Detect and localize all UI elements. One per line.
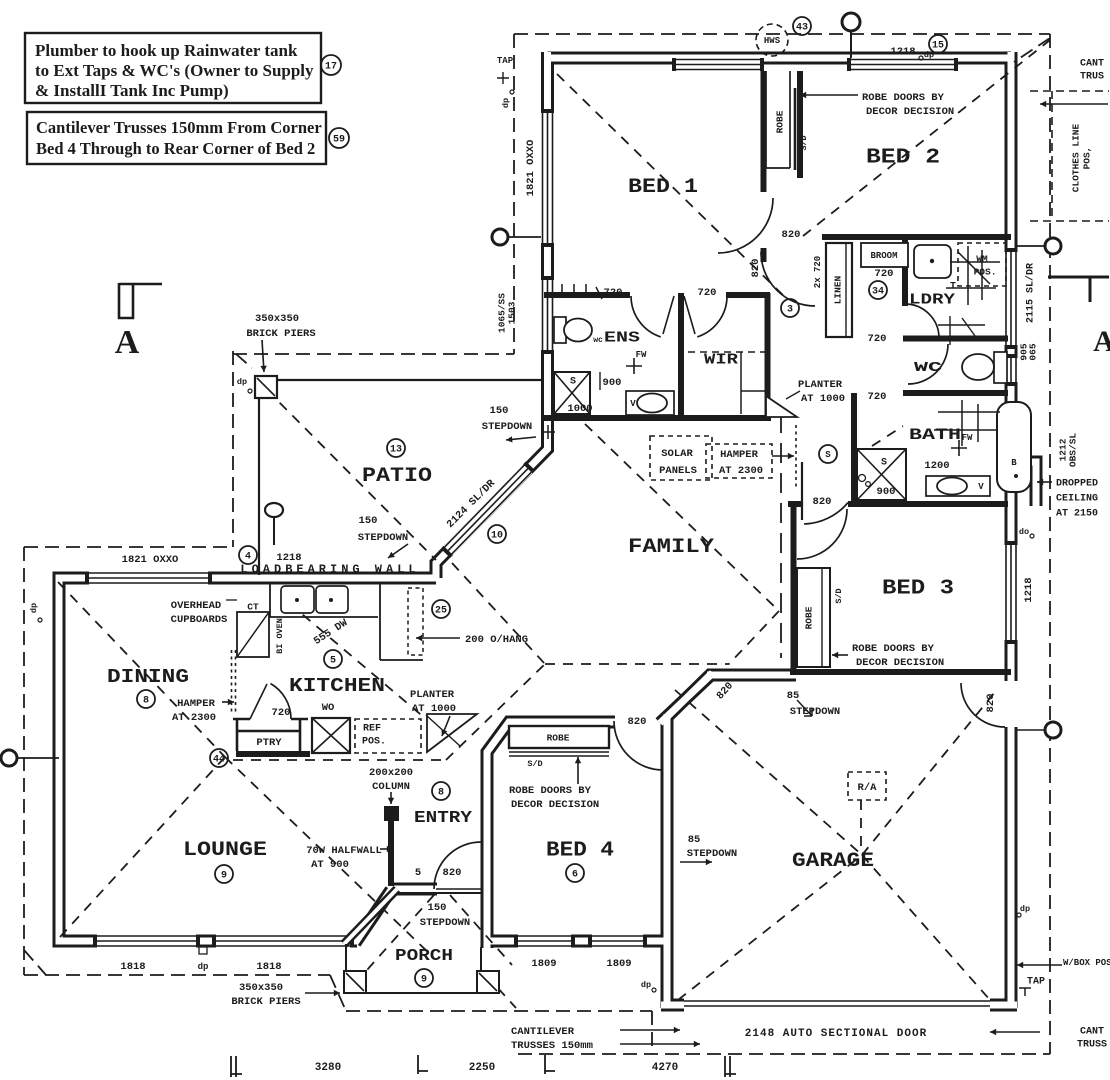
- svg-text:Plumber to hook up Rainwater t: Plumber to hook up Rainwater tank: [35, 41, 298, 60]
- svg-text:1818: 1818: [256, 961, 281, 973]
- hws dashed circle: [756, 24, 788, 56]
- svg-text:1809: 1809: [606, 958, 631, 970]
- svg-text:AT 2300: AT 2300: [719, 465, 763, 477]
- label 2x720 rotated: [813, 256, 823, 288]
- svg-text:BED 4: BED 4: [546, 840, 614, 863]
- bath tub: [997, 402, 1031, 492]
- svg-text:to Ext Taps & WC's (Owner to S: to Ext Taps & WC's (Owner to Supply: [35, 61, 314, 80]
- label 820 hall rotated: [750, 259, 762, 278]
- svg-text:BI OVEN: BI OVEN: [275, 618, 285, 654]
- entry door arc: [436, 888, 481, 890]
- garage door sill: [684, 1001, 990, 1006]
- interior walls: [236, 71, 1011, 886]
- svg-text:BRICK PIERS: BRICK PIERS: [231, 996, 300, 1008]
- svg-text:1809: 1809: [531, 958, 556, 970]
- svg-text:1821 OXXO: 1821 OXXO: [122, 554, 179, 566]
- svg-text:720: 720: [698, 287, 717, 299]
- hall circled 3: [781, 299, 799, 317]
- window 905 east wall wc: [1005, 358, 1018, 382]
- svg-text:820: 820: [443, 867, 462, 879]
- window top wall bed1: [676, 58, 760, 71]
- svg-text:ROBE DOORS BY: ROBE DOORS BY: [509, 785, 592, 797]
- svg-text:V: V: [630, 399, 636, 409]
- patio pier: [255, 376, 277, 398]
- dp top left: [501, 98, 511, 108]
- bed3 door arc: [797, 509, 847, 559]
- svg-text:70W HALFWALL: 70W HALFWALL: [306, 845, 382, 857]
- svg-text:820: 820: [782, 229, 801, 241]
- svg-text:T: T: [950, 282, 956, 293]
- svg-text:10: 10: [491, 531, 503, 542]
- svg-text:2115 SL/DR: 2115 SL/DR: [1025, 263, 1037, 323]
- dim 1212 east rotated: [1057, 438, 1068, 461]
- svg-text:CANT: CANT: [1080, 1027, 1104, 1038]
- bath tap hash: [934, 400, 1000, 446]
- bed1 door arc: [718, 198, 773, 253]
- svg-text:1000: 1000: [567, 403, 592, 415]
- svg-text:dp: dp: [198, 962, 209, 972]
- svg-text:A: A: [115, 324, 140, 361]
- planter wedge hall: [766, 396, 797, 417]
- svg-text:POS.: POS.: [362, 737, 386, 748]
- svg-text:CANTILEVER: CANTILEVER: [511, 1026, 575, 1038]
- svg-text:WIR: WIR: [704, 351, 738, 368]
- svg-text:5: 5: [415, 867, 421, 879]
- 2124 sl/dr rotated: [445, 477, 499, 531]
- window 1818 lounge bottom 2: [216, 935, 350, 948]
- svg-text:1218: 1218: [890, 46, 915, 58]
- slider 2124 on patio diagonal: [441, 461, 535, 558]
- svg-text:WC: WC: [914, 360, 943, 376]
- svg-text:TRUS: TRUS: [1080, 72, 1104, 83]
- svg-text:TAP: TAP: [497, 56, 514, 66]
- svg-text:BED 1: BED 1: [628, 176, 698, 199]
- svg-text:BED 2: BED 2: [866, 147, 940, 170]
- window 1818 lounge bottom 1: [97, 935, 196, 948]
- svg-text:AT 1000: AT 1000: [801, 393, 845, 405]
- hamper dashed box family: [706, 444, 772, 478]
- svg-text:PORCH: PORCH: [395, 947, 453, 966]
- ref pos dashed: [355, 719, 421, 753]
- svg-text:ENS: ENS: [604, 329, 640, 346]
- svg-text:ROBE: ROBE: [774, 110, 785, 133]
- svg-text:CANT: CANT: [1080, 59, 1104, 70]
- svg-text:200x200: 200x200: [369, 767, 413, 779]
- window 1809 bed4 bottom 2: [592, 935, 643, 948]
- svg-text:LINEN: LINEN: [832, 275, 843, 304]
- dim 1218 bed3 rotated: [1023, 577, 1035, 602]
- hall door arc bed2 side: [761, 252, 815, 306]
- patio beam: [259, 380, 541, 575]
- note box 2 cantilever: [27, 112, 326, 164]
- svg-text:9: 9: [421, 975, 427, 986]
- svg-text:ENTRY: ENTRY: [414, 809, 473, 828]
- robe doors label bed3: [832, 654, 848, 656]
- svg-text:R/A: R/A: [858, 782, 878, 794]
- window 1821 dining top wall: [89, 572, 208, 585]
- svg-text:KITCHEN: KITCHEN: [289, 675, 385, 697]
- svg-text:CT: CT: [247, 601, 259, 612]
- porch stone wall: [344, 889, 397, 944]
- svg-text:B: B: [1011, 458, 1017, 468]
- svg-text:ROBE DOORS BY: ROBE DOORS BY: [862, 92, 945, 104]
- svg-text:820: 820: [813, 496, 832, 508]
- dim 905 east rotated: [1018, 343, 1029, 360]
- east marker 1: [1045, 238, 1061, 254]
- svg-text:44: 44: [213, 755, 225, 766]
- svg-text:COLUMN: COLUMN: [372, 781, 410, 793]
- svg-text:8: 8: [438, 788, 444, 799]
- svg-text:13: 13: [390, 445, 402, 456]
- svg-text:150: 150: [428, 902, 447, 914]
- svg-text:720: 720: [868, 333, 887, 345]
- svg-text:200 O/HANG: 200 O/HANG: [465, 634, 528, 646]
- svg-text:6: 6: [572, 870, 578, 881]
- circled 44: [210, 749, 228, 767]
- svg-text:GARAGE: GARAGE: [792, 850, 874, 873]
- svg-text:5: 5: [330, 656, 336, 667]
- svg-text:1200: 1200: [924, 460, 949, 472]
- svg-text:STEPDOWN: STEPDOWN: [420, 917, 470, 929]
- ct box: [237, 612, 269, 657]
- svg-text:STEPDOWN: STEPDOWN: [687, 848, 737, 860]
- bath shower: [857, 449, 906, 500]
- svg-text:dp: dp: [501, 98, 511, 108]
- svg-text:350x350: 350x350: [239, 982, 283, 994]
- family tap cross: [541, 425, 555, 439]
- wc door arc: [908, 344, 948, 384]
- svg-text:dp: dp: [641, 980, 651, 990]
- column 200x200: [384, 806, 399, 821]
- exterior walls (double line): [59, 52, 1036, 1008]
- svg-text:OBS/SL: OBS/SL: [1067, 433, 1078, 468]
- dim 1065 west rotated: [496, 293, 507, 333]
- svg-text:STEPDOWN: STEPDOWN: [358, 532, 408, 544]
- svg-text:OVERHEAD: OVERHEAD: [171, 600, 221, 612]
- broom closet: [861, 243, 908, 267]
- svg-text:dp: dp: [1020, 904, 1030, 914]
- note circle 59: [329, 128, 349, 148]
- wir shelf dashed: [688, 351, 766, 353]
- svg-text:wc: wc: [593, 336, 603, 345]
- hamper fine dashed line: [232, 425, 797, 714]
- svg-text:dp: dp: [924, 50, 934, 60]
- svg-text:CEILING: CEILING: [1056, 494, 1098, 505]
- svg-text:150: 150: [490, 405, 509, 417]
- dp dining boundary: [29, 603, 39, 613]
- svg-text:ROBE DOORS BY: ROBE DOORS BY: [852, 643, 935, 655]
- bed4 robe: [509, 726, 609, 748]
- porch slab: [344, 893, 499, 993]
- ens vanity: [626, 391, 674, 415]
- kitchen planter wedge: [427, 714, 477, 752]
- svg-text:S/D: S/D: [799, 135, 809, 150]
- svg-text:2250: 2250: [469, 1062, 495, 1074]
- svg-text:34: 34: [872, 287, 884, 298]
- wm pos dashed: [958, 243, 1006, 286]
- circled 34: [869, 281, 887, 299]
- bath door leaf+arc: [801, 462, 803, 520]
- svg-text:SOLAR: SOLAR: [661, 448, 693, 460]
- vent top: [842, 13, 860, 31]
- svg-text:820: 820: [985, 694, 997, 713]
- svg-text:900: 900: [603, 377, 622, 389]
- wo box: [312, 718, 350, 753]
- svg-text:& InstallI Tank Inc Pump): & InstallI Tank Inc Pump): [35, 81, 229, 100]
- kitchen bench: [269, 583, 423, 660]
- svg-text:PANELS: PANELS: [659, 465, 697, 477]
- svg-text:ROBE: ROBE: [547, 732, 570, 743]
- svg-text:dp: dp: [29, 603, 39, 613]
- bed4 door arc: [614, 721, 663, 770]
- circled 43: [793, 17, 811, 35]
- svg-text:FAMILY: FAMILY: [628, 536, 714, 559]
- svg-text:DECOR DECISION: DECOR DECISION: [856, 657, 944, 669]
- circled 25: [432, 600, 450, 618]
- svg-text:9: 9: [221, 871, 227, 882]
- r/a dashed box: [848, 772, 886, 800]
- svg-text:STEPDOWN: STEPDOWN: [482, 421, 532, 433]
- svg-text:PLANTER: PLANTER: [410, 689, 455, 701]
- section marker right edge: [1048, 277, 1109, 302]
- bed3 robe: [797, 568, 830, 667]
- bed1 robe: [766, 71, 790, 168]
- svg-text:Bed 4 Through to Rear Corner o: Bed 4 Through to Rear Corner of Bed 2: [36, 139, 315, 158]
- svg-text:FW: FW: [962, 433, 973, 443]
- svg-text:4: 4: [245, 552, 251, 563]
- svg-text:2148 AUTO SECTIONAL DOOR: 2148 AUTO SECTIONAL DOOR: [745, 1028, 927, 1040]
- pantry: [233, 719, 308, 751]
- svg-text:59: 59: [333, 135, 345, 146]
- ldry tap hash: [946, 246, 1000, 305]
- ens door arc: [631, 296, 661, 337]
- circled S family: [819, 445, 837, 463]
- svg-text:BRICK PIERS: BRICK PIERS: [246, 328, 315, 340]
- svg-text:REF: REF: [363, 724, 381, 735]
- robe doors label bed4: [577, 757, 579, 784]
- svg-text:1818: 1818: [120, 961, 145, 973]
- svg-text:BED 3: BED 3: [882, 578, 954, 601]
- svg-text:PTRY: PTRY: [256, 737, 282, 749]
- svg-text:17: 17: [325, 62, 337, 73]
- 555 dw label: [312, 617, 351, 648]
- svg-text:S/D: S/D: [527, 759, 542, 769]
- svg-text:DECOR DECISION: DECOR DECISION: [511, 799, 599, 811]
- svg-text:TRUSSES 150mm: TRUSSES 150mm: [511, 1040, 593, 1052]
- svg-text:DROPPED: DROPPED: [1056, 479, 1098, 490]
- wir shelf lines: [741, 352, 765, 414]
- svg-text:S: S: [881, 458, 887, 469]
- porch pier left: [344, 971, 366, 993]
- svg-text:DECOR DECISION: DECOR DECISION: [866, 106, 954, 118]
- garage door arc 820: [961, 683, 1005, 727]
- svg-text:DINING: DINING: [107, 666, 189, 688]
- wir door arc: [697, 296, 727, 337]
- linen closet: [826, 243, 852, 337]
- svg-text:720: 720: [875, 268, 894, 280]
- svg-text:TAP: TAP: [1027, 977, 1045, 988]
- sliding door 2115 east wall ldry: [1005, 252, 1018, 345]
- svg-text:720: 720: [868, 391, 887, 403]
- svg-text:CLOTHES LINE: CLOTHES LINE: [1070, 124, 1081, 193]
- family east long-dash line: [780, 413, 782, 658]
- bath vanity: [926, 476, 990, 496]
- svg-text:AT 1000: AT 1000: [412, 703, 456, 715]
- patio light marker: [265, 503, 283, 517]
- solar panels dashed box: [650, 436, 712, 480]
- bi oven label: [275, 618, 285, 654]
- svg-text:STEPDOWN: STEPDOWN: [790, 706, 840, 718]
- ens toilet: [554, 317, 566, 343]
- svg-text:ROBE: ROBE: [803, 606, 814, 629]
- garage right marker: [1045, 722, 1061, 738]
- kitchen sink: [281, 586, 314, 613]
- svg-text:A: A: [1093, 325, 1110, 358]
- svg-text:BATH: BATH: [909, 426, 961, 444]
- section marker A: [119, 283, 162, 318]
- window 1218 top wall bed2: [851, 58, 954, 71]
- svg-text:AT 2150: AT 2150: [1056, 509, 1098, 520]
- note box 1 plumber: [25, 33, 321, 103]
- svg-text:3280: 3280: [315, 1062, 341, 1074]
- wc tap hash: [938, 316, 985, 345]
- clothes line: [1030, 91, 1109, 221]
- svg-text:WO: WO: [322, 702, 335, 714]
- svg-text:S/D: S/D: [834, 588, 844, 603]
- dim 1821 west rotated: [525, 140, 537, 197]
- note circle 17: [321, 55, 341, 75]
- window 1065 west wall ens: [541, 280, 554, 350]
- svg-text:720: 720: [272, 707, 291, 719]
- svg-text:CUPBOARDS: CUPBOARDS: [171, 614, 228, 626]
- svg-text:3: 3: [787, 305, 793, 316]
- svg-text:TRUSS: TRUSS: [1077, 1040, 1107, 1051]
- svg-text:POS,: POS,: [1081, 147, 1092, 170]
- door opening east wall garage 820: [1004, 681, 1018, 727]
- svg-text:8: 8: [143, 696, 149, 707]
- circled 10: [488, 525, 506, 543]
- svg-text:BROOM: BROOM: [870, 251, 897, 261]
- svg-text:PLANTER: PLANTER: [798, 379, 843, 391]
- svg-text:AT 2300: AT 2300: [172, 712, 216, 724]
- svg-text:HAMPER: HAMPER: [177, 698, 216, 710]
- svg-text:1821 OXXO: 1821 OXXO: [525, 140, 537, 197]
- svg-text:HWS: HWS: [764, 36, 781, 46]
- west marker 1: [492, 229, 508, 245]
- svg-text:LOADBEARING WALL: LOADBEARING WALL: [240, 562, 419, 576]
- west marker 2: [1, 750, 17, 766]
- ldry door arc: [905, 304, 939, 338]
- kitchen ohang dashed: [408, 588, 423, 655]
- svg-text:HAMPER: HAMPER: [720, 449, 759, 461]
- svg-text:FW: FW: [636, 350, 647, 360]
- svg-text:2x 720: 2x 720: [813, 256, 823, 288]
- svg-text:150: 150: [359, 515, 378, 527]
- wc toilet: [994, 352, 1007, 383]
- svg-text:AT 900: AT 900: [311, 859, 349, 871]
- svg-text:820: 820: [750, 259, 762, 278]
- svg-text:43: 43: [796, 23, 808, 34]
- svg-text:Cantilever Trusses 150mm From: Cantilever Trusses 150mm From Corner: [36, 118, 322, 137]
- svg-text:do: do: [1019, 527, 1029, 537]
- circled 4 + 1218: [239, 546, 257, 564]
- label 820 diag rotated: [715, 680, 737, 702]
- svg-text:1218: 1218: [1023, 577, 1035, 602]
- dim 2115 east rotated: [1025, 263, 1037, 323]
- svg-text:900: 900: [877, 486, 896, 498]
- ens shower: [554, 372, 590, 414]
- svg-text:dp: dp: [237, 377, 247, 387]
- window 1218 east wall bed3: [1005, 545, 1018, 640]
- svg-text:LOUNGE: LOUNGE: [183, 839, 267, 862]
- svg-text:25: 25: [435, 606, 447, 617]
- ens shower hatch: [556, 284, 602, 299]
- svg-text:V: V: [978, 482, 984, 492]
- porch pier right: [477, 971, 499, 993]
- svg-text:S: S: [570, 377, 576, 388]
- window 1809 bed4 bottom 1: [518, 935, 571, 948]
- svg-text:4270: 4270: [652, 1062, 678, 1074]
- svg-text:820: 820: [628, 716, 647, 728]
- ldry tub: [914, 245, 951, 278]
- svg-text:065: 065: [1027, 343, 1038, 360]
- svg-text:PATIO: PATIO: [362, 465, 432, 488]
- svg-text:S: S: [825, 450, 831, 460]
- svg-text:85: 85: [688, 834, 701, 846]
- window 1821 OXXO west wall bed1: [541, 113, 554, 243]
- svg-text:350x350: 350x350: [255, 313, 299, 325]
- robe doors by decor decision bed2: [800, 94, 858, 96]
- svg-text:1503: 1503: [506, 301, 517, 324]
- svg-text:W/BOX POS: W/BOX POS: [1063, 958, 1110, 968]
- svg-text:720: 720: [604, 287, 623, 299]
- bottom dim ticks: [231, 1055, 736, 1077]
